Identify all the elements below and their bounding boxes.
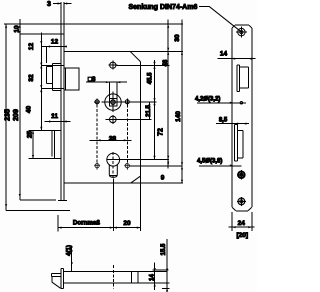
- leader line to countersunk hole: [199, 5, 209, 7]
- left inner dim line 209: [19, 19, 21, 197]
- svg-text:21.5: 21.5: [146, 105, 152, 117]
- svg-text:30: 30: [174, 34, 181, 42]
- extension from right screw hole to right dims: [130, 101, 157, 103]
- dimension 24 below plate: [229, 212, 255, 231]
- svg-text:14: 14: [150, 274, 156, 281]
- bottom view bar dividers: [131, 272, 138, 284]
- deadbolt top/bottom extensions to left: [29, 130, 62, 158]
- cylinder side screw hole left: [95, 164, 99, 168]
- Dornmass dimension line: [58, 227, 140, 229]
- extension line plate top, long: [4, 23, 183, 25]
- left outer dim line 235: [5, 24, 7, 208]
- plate bottom-235 corner lines lower left: [6, 208, 70, 211]
- dim line 21.5: [149, 102, 151, 120]
- svg-text:Dornmaß: Dornmaß: [73, 220, 100, 227]
- svg-text:4,2Ø(3,2): 4,2Ø(3,2): [195, 97, 220, 103]
- case right edge extension down to Dornmass dim: [139, 176, 141, 231]
- deadbolt height dim line: [32, 130, 34, 158]
- svg-text:38: 38: [109, 136, 117, 143]
- bottom view case bar: [64, 272, 167, 284]
- dimension 11 (deadbolt projection): [44, 121, 70, 123]
- faceplate (Stulp) edge-on: [58, 2, 67, 201]
- svg-text:[20]: [20]: [237, 232, 249, 239]
- svg-text:45.5: 45.5: [147, 72, 153, 84]
- latch bolt body inside case: [64, 68, 79, 90]
- bottom view vertical ext + label 4(1): [71, 246, 73, 272]
- extension from right cyl hole to right dims: [129, 165, 182, 167]
- bottom view latch head with bevel: [51, 273, 61, 282]
- latch top extension: [41, 65, 64, 67]
- screw hole bottom (countersunk): [238, 198, 245, 205]
- svg-text:11: 11: [51, 113, 58, 120]
- dimension 8.5: [216, 123, 249, 125]
- lower center hole: [110, 116, 117, 123]
- svg-text:32: 32: [28, 74, 35, 82]
- deadbolt cutout on plate: [235, 125, 244, 162]
- mid-left dim line (latch heights): [40, 33, 42, 131]
- latch cutout on plate: [237, 65, 249, 91]
- countersunk hole top: [238, 28, 245, 35]
- Dornmass extension left: [57, 215, 59, 231]
- svg-text:20: 20: [123, 220, 131, 227]
- screw hole mid (countersunk, dark): [238, 171, 245, 178]
- svg-text:8,5: 8,5: [219, 118, 228, 124]
- deadbolt head: [52, 130, 61, 158]
- latch bottom extension: [41, 88, 64, 90]
- lock case outline with chamfered right corners: [64, 51, 141, 183]
- profile cylinder hole: [107, 153, 120, 166]
- case bottom extension to right: [131, 182, 184, 184]
- svg-text:4,5Ø(3,8): 4,5Ø(3,8): [197, 159, 222, 165]
- right screw hole beside follower: [125, 100, 129, 104]
- svg-text:15.5: 15.5: [161, 243, 167, 255]
- svg-text:40: 40: [26, 106, 33, 114]
- svg-text:3: 3: [47, 1, 51, 8]
- svg-text:14: 14: [220, 51, 228, 58]
- bottom view dashed axis: [112, 265, 114, 289]
- case top extension to right: [64, 50, 183, 52]
- svg-text:25: 25: [27, 131, 34, 139]
- svg-text:9: 9: [161, 175, 165, 182]
- dimension 38 between screw holes: [90, 139, 132, 141]
- svg-text:10: 10: [14, 25, 21, 33]
- extension line from top hole to right dims: [117, 64, 170, 66]
- svg-text:140: 140: [175, 111, 182, 122]
- dimension 12 (latch projection): [41, 47, 67, 64]
- dimension 15.5 (bottom view): [162, 239, 170, 292]
- dashed centre lines through screw holes: [96, 105, 98, 170]
- leader for 4.2 hole: [197, 102, 246, 104]
- svg-text:209: 209: [13, 109, 20, 121]
- extension from cylinder centre to right dims: [120, 159, 169, 161]
- bottom view faceplate cross-section: [61, 269, 64, 289]
- dimension 3 (plate thickness) at top: [53, 3, 72, 5]
- faceplate frontal outline with corner chamfers: [232, 25, 252, 211]
- follower nut (handle hub): [105, 94, 121, 110]
- extension at y 34: [20, 33, 64, 35]
- svg-text:24: 24: [238, 220, 246, 227]
- svg-text:12: 12: [51, 39, 59, 46]
- dimension 14 (case thickness, bottom view): [152, 263, 169, 291]
- svg-text:4(1): 4(1): [66, 245, 72, 256]
- dim line 45 / 72: [154, 60, 156, 159]
- small hole 4.2: [240, 101, 243, 104]
- centre axis below cylinder down to Dornmass dim: [112, 178, 114, 231]
- svg-text:Senkung DIN74-Am6: Senkung DIN74-Am6: [129, 4, 198, 11]
- svg-text:12: 12: [28, 43, 35, 51]
- cylinder side screw hole right: [125, 164, 129, 168]
- leader for 4.5 hole: [199, 165, 241, 167]
- extension from lower hole to right dims: [106, 118, 152, 120]
- dimension 14: [218, 58, 256, 60]
- left screw hole beside follower: [95, 100, 99, 104]
- latch bolt head (stepped): [47, 63, 61, 90]
- dim line B 140: [181, 20, 183, 183]
- svg-text:235: 235: [5, 109, 12, 121]
- top fixing hole: [110, 62, 116, 68]
- dim line A 30/9: [167, 20, 169, 169]
- leader/dim line for square 8: [86, 82, 127, 98]
- svg-text:72: 72: [157, 128, 164, 136]
